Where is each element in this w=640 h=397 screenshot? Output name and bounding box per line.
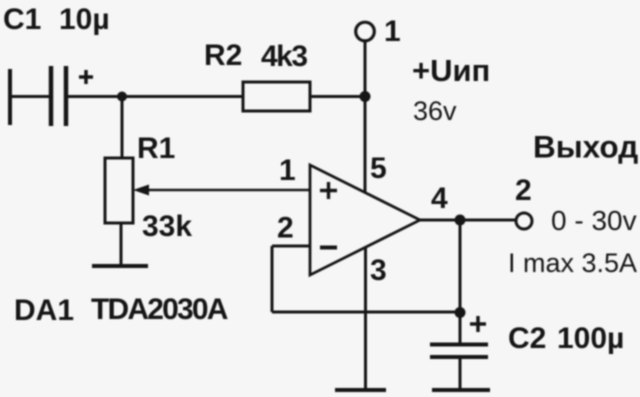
op-amp U1 triangle (310, 165, 420, 275)
svg-text:I max 3.5A: I max 3.5A (508, 248, 637, 278)
svg-text:1: 1 (279, 154, 296, 187)
resistor R2 (243, 82, 310, 111)
capacitor C1 left plate (49, 66, 54, 126)
wire output down to C2 (459, 220, 462, 344)
wiper arrowhead (133, 185, 149, 196)
node supply junction dot (360, 91, 371, 102)
capacitor C2 top plate (430, 343, 488, 347)
ground bar under pin3 (335, 388, 386, 392)
wiper arrow wire R1 to op-amp pin1 (146, 189, 310, 192)
op-amp minus input sign (320, 246, 337, 250)
terminal 1 circle (356, 22, 375, 41)
svg-text:5: 5 (370, 152, 387, 185)
node C2 junction dot (455, 307, 466, 318)
svg-text:TDA2030A: TDA2030A (91, 293, 228, 326)
node output junction dot (455, 215, 466, 226)
wire output (420, 219, 516, 222)
svg-text:100µ: 100µ (557, 322, 624, 355)
ground bar under R1 (92, 264, 148, 268)
terminal 2 circle (516, 213, 532, 229)
capacitor C2 bottom plate (430, 355, 488, 359)
wire feedback vertical (271, 246, 274, 312)
wire feedback horizontal (272, 311, 460, 314)
wire R1 bottom lead (120, 223, 123, 266)
input terminal bar (8, 69, 12, 125)
wire input lead (10, 95, 50, 98)
capacitor C1 polarity plus (79, 70, 93, 84)
svg-text:Выход: Выход (533, 129, 638, 165)
svg-text:33k: 33k (142, 210, 192, 243)
wire pin2 stub (272, 245, 310, 248)
svg-text:2: 2 (515, 174, 532, 207)
wire C1 to R2 (66, 95, 243, 98)
svg-text:R2: R2 (204, 39, 242, 72)
svg-text:1: 1 (384, 15, 401, 48)
node A junction dot (117, 92, 127, 102)
svg-text:4: 4 (431, 182, 448, 215)
svg-text:C2: C2 (508, 322, 546, 355)
svg-text:36v: 36v (413, 96, 457, 126)
capacitor C2 polarity plus (470, 316, 486, 332)
op-amp plus input sign (320, 182, 337, 199)
svg-text:R1: R1 (137, 132, 175, 165)
wire C2 bottom lead (459, 357, 462, 390)
ground bar under C2 (432, 388, 490, 392)
wire R2 to supply rail (310, 95, 365, 98)
svg-text:10µ: 10µ (59, 3, 110, 36)
svg-text:+Uип: +Uип (412, 53, 490, 88)
potentiometer R1 body (105, 158, 133, 223)
svg-text:2: 2 (277, 212, 294, 245)
svg-text:C1: C1 (3, 3, 41, 36)
capacitor C1 right plate (64, 66, 69, 126)
wire node A to R1 (121, 97, 124, 159)
wire supply rail (364, 40, 367, 193)
svg-text:3: 3 (370, 254, 387, 287)
svg-text:0 - 30v: 0 - 30v (551, 205, 637, 236)
svg-text:4k3: 4k3 (261, 40, 307, 73)
wire pin3 down (364, 247, 367, 390)
svg-text:DA1: DA1 (14, 294, 74, 327)
